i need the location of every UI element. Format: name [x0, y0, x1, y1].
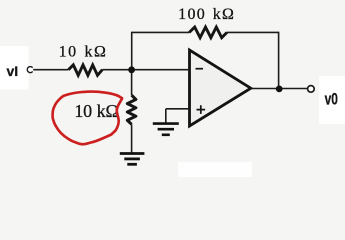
svg-text:v0: v0	[325, 91, 338, 109]
resistor R1 10 kOhm input zigzag	[69, 65, 103, 75]
resistor R3 10 kOhm shunt vertical zigzag	[127, 95, 136, 124]
op-amp U1 triangle	[190, 50, 251, 126]
node A junction dot	[128, 66, 135, 73]
wire node A down to R3	[131, 70, 133, 96]
ground (bottom, for R3)	[120, 154, 145, 165]
resistor R2 100 kOhm feedback zigzag	[189, 27, 227, 38]
wire op-amp plus input horizontal	[166, 108, 190, 110]
svg-text:10 kΩ: 10 kΩ	[74, 101, 118, 121]
wire plus input down to ground 2	[165, 109, 167, 124]
white patch bottom erased area	[178, 162, 252, 177]
svg-text:10 kΩ: 10 kΩ	[59, 44, 108, 61]
white patch behind vI label	[0, 46, 29, 90]
op-amp minus sign	[196, 68, 204, 70]
svg-text:100 kΩ: 100 kΩ	[178, 6, 235, 23]
svg-text:vI: vI	[7, 63, 19, 79]
wire input terminal to R1	[33, 69, 68, 71]
wire right corner down to output node	[278, 32, 280, 89]
output node junction dot	[276, 86, 283, 93]
red annotation circle around 10 kOhm	[53, 92, 123, 145]
op-amp plus sign	[197, 105, 206, 114]
ground (op-amp plus input)	[153, 124, 179, 135]
wire R1 to op-amp minus input	[102, 69, 188, 71]
white patch behind v0 label	[319, 76, 345, 124]
wire op-amp output to terminal	[251, 88, 308, 90]
wire node A up to feedback top	[131, 32, 133, 69]
wire top left to R2	[131, 31, 190, 33]
wire R2 to top right corner	[227, 31, 279, 33]
input terminal open circle	[27, 67, 32, 73]
output terminal open circle	[308, 86, 315, 93]
wire R3 to ground	[131, 124, 133, 153]
